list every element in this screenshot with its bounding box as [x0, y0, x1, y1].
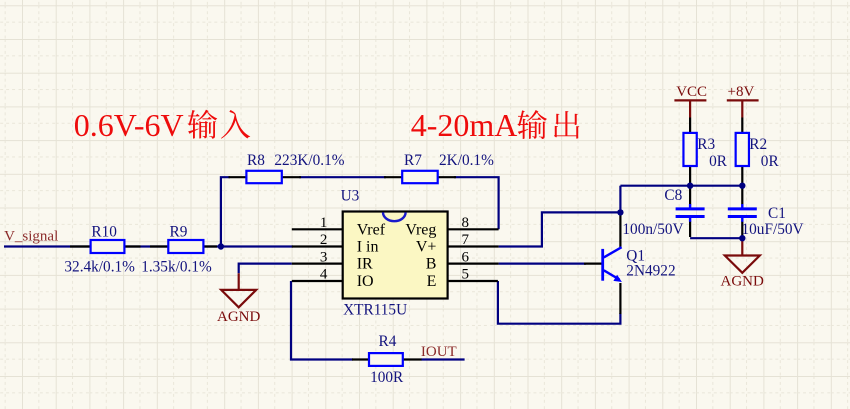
svg-text:R4: R4: [379, 333, 397, 350]
svg-text:IOUT: IOUT: [421, 344, 457, 360]
power VCC: [674, 84, 707, 118]
svg-text:100R: 100R: [370, 369, 404, 386]
label pin names U3: [357, 221, 437, 290]
wire emitter loop: [498, 281, 621, 324]
pin U3.3: [292, 263, 343, 265]
svg-text:AGND: AGND: [217, 309, 260, 325]
ground AGND right: [721, 238, 764, 289]
pin C8: [689, 187, 691, 237]
svg-text:R8: R8: [247, 152, 265, 169]
wire IOUT: [421, 358, 464, 360]
svg-text:0R: 0R: [761, 153, 780, 170]
wire between R8 and R7: [299, 176, 386, 178]
capacitor C1: [728, 209, 757, 217]
resistor R9: [168, 240, 203, 253]
svg-text:XTR115U: XTR115U: [343, 302, 407, 319]
wire pin7 route: [499, 212, 621, 246]
pin U3.2: [292, 245, 343, 247]
node junction collector: [617, 209, 623, 215]
pin R9 stubs: [150, 245, 217, 247]
resistor R10: [91, 240, 125, 253]
svg-text:4-20mA: 4-20mA: [411, 107, 518, 143]
svg-text:R2: R2: [749, 136, 767, 153]
pin R7 stubs: [384, 176, 456, 178]
op-amp U3 body: [343, 212, 448, 299]
svg-text:Vreg: Vreg: [405, 221, 436, 238]
label title output CJK chu: [554, 111, 579, 139]
pin R4 stubs: [352, 358, 422, 360]
label title input CJK ru: [221, 110, 250, 139]
svg-text:Vref: Vref: [357, 221, 386, 238]
wire base: [499, 263, 586, 265]
svg-text:R3: R3: [697, 136, 715, 153]
svg-text:32.4k/0.1%: 32.4k/0.1%: [64, 258, 135, 275]
resistor R2: [736, 133, 749, 166]
pin R3 top and bottom: [689, 118, 691, 186]
wire main horizontal V_signal to pin2: [4, 245, 293, 247]
pin R2 top and bottom: [741, 118, 743, 186]
svg-text:R7: R7: [404, 152, 422, 169]
svg-text:5: 5: [461, 267, 469, 283]
svg-text:U3: U3: [341, 188, 360, 205]
svg-text:0R: 0R: [709, 153, 728, 170]
pin U3.4: [292, 280, 343, 282]
label title output CJK shu2: [517, 110, 547, 139]
pin Q1 emitter: [619, 283, 621, 314]
pin U3.8: [448, 228, 499, 230]
svg-text:V_signal: V_signal: [4, 229, 58, 245]
svg-text:R10: R10: [91, 224, 117, 241]
transistor Q1: [603, 247, 622, 282]
label pin numbers U3: [320, 215, 470, 283]
pin U3.6: [448, 263, 499, 265]
svg-text:1: 1: [320, 215, 328, 231]
svg-text:B: B: [426, 256, 437, 273]
svg-text:223K/0.1%: 223K/0.1%: [274, 152, 344, 169]
svg-text:IO: IO: [357, 273, 374, 290]
resistor R8: [246, 171, 281, 183]
pin Q1 base: [584, 263, 602, 265]
svg-text:100n/50V: 100n/50V: [622, 221, 683, 238]
capacitor C8: [676, 209, 705, 217]
svg-text:3: 3: [320, 249, 328, 265]
label title input CJK shu: [188, 110, 218, 139]
svg-text:AGND: AGND: [721, 274, 764, 290]
pin U3.7: [448, 245, 499, 247]
svg-text:C1: C1: [768, 205, 786, 222]
wire R7 to pin8: [454, 177, 499, 229]
wire node rail R3 R2 bottom: [619, 186, 621, 215]
svg-text:VCC: VCC: [676, 84, 707, 100]
resistor R3: [683, 133, 696, 166]
svg-text:10uF/50V: 10uF/50V: [742, 221, 804, 238]
node junction main: [218, 243, 224, 249]
svg-text:R9: R9: [170, 224, 188, 241]
svg-text:2: 2: [320, 232, 328, 248]
node junction cap bottom: [739, 235, 745, 241]
svg-text:0.6V-6V: 0.6V-6V: [74, 107, 184, 143]
node junction R2: [739, 183, 745, 189]
svg-text:+8V: +8V: [728, 84, 755, 100]
wire pin3 to AGND: [239, 264, 292, 274]
svg-text:2N4922: 2N4922: [626, 262, 675, 279]
power +8V: [727, 84, 759, 118]
svg-text:2K/0.1%: 2K/0.1%: [439, 152, 494, 169]
svg-text:1.35k/0.1%: 1.35k/0.1%: [141, 258, 212, 275]
svg-text:V+: V+: [416, 239, 437, 256]
resistor R7: [402, 171, 438, 183]
resistor R4: [369, 353, 403, 366]
svg-text:7: 7: [461, 232, 469, 248]
wire capacitor bottom rail: [690, 237, 742, 239]
wire horizontal rail y186: [620, 185, 742, 187]
svg-text:6: 6: [461, 249, 469, 265]
svg-text:8: 8: [461, 215, 469, 231]
pin R8 stubs: [229, 176, 302, 178]
pin C1: [741, 187, 743, 237]
wire pin4 loop to R4: [291, 281, 353, 360]
svg-text:E: E: [427, 273, 437, 290]
pin Q1 collector: [619, 215, 621, 247]
pin U3.1: [292, 228, 343, 230]
wire R8 branch vertical and top: [221, 177, 230, 246]
svg-text:C8: C8: [664, 187, 682, 204]
pin R10 stubs: [70, 245, 141, 247]
pin U3.5: [448, 280, 498, 282]
ground AGND left: [217, 273, 260, 325]
svg-text:4: 4: [320, 267, 328, 283]
node junction R3: [687, 183, 693, 189]
svg-text:IR: IR: [357, 256, 373, 273]
svg-text:I in: I in: [357, 239, 379, 256]
